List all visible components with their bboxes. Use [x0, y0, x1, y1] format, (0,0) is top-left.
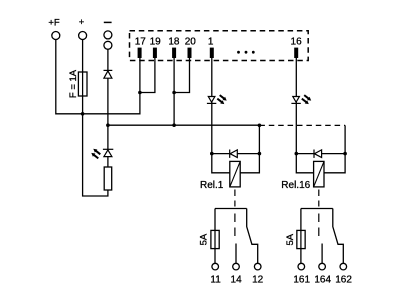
svg-text:14: 14	[231, 275, 243, 286]
svg-text:20: 20	[185, 37, 197, 48]
svg-text:+F: +F	[48, 18, 60, 29]
svg-text:19: 19	[150, 37, 162, 48]
svg-text:Rel. 16: Rel. 16	[281, 180, 310, 191]
svg-text:18: 18	[168, 37, 180, 48]
svg-text:5A: 5A	[199, 233, 210, 245]
svg-text:12: 12	[252, 275, 264, 286]
svg-text:5A: 5A	[285, 233, 296, 245]
svg-text:16: 16	[291, 37, 303, 48]
svg-text:164: 164	[314, 275, 331, 286]
svg-text:Rel. 1: Rel. 1	[200, 180, 224, 191]
svg-text:162: 162	[335, 275, 352, 286]
svg-text:17: 17	[135, 37, 147, 48]
svg-text:+: +	[79, 17, 85, 28]
svg-text:11: 11	[210, 275, 221, 286]
svg-text:161: 161	[293, 275, 310, 286]
svg-text:F = 1A: F = 1A	[68, 69, 79, 98]
svg-text:1: 1	[208, 37, 214, 48]
